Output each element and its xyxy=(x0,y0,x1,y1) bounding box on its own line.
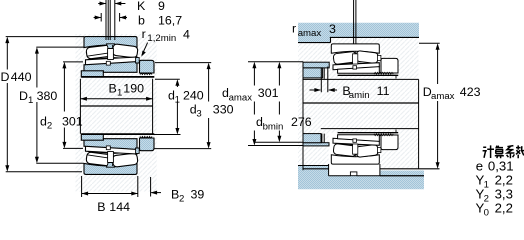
svg-text:D: D xyxy=(19,89,28,103)
svg-text:bmin: bmin xyxy=(263,121,284,132)
svg-text:240: 240 xyxy=(183,88,204,102)
svg-text:B: B xyxy=(97,200,105,214)
svg-text:B: B xyxy=(109,82,117,96)
svg-text:301: 301 xyxy=(258,86,279,100)
svg-text:r: r xyxy=(292,22,296,36)
svg-text:11: 11 xyxy=(377,84,390,98)
svg-text:9: 9 xyxy=(158,0,165,13)
svg-text:0,31: 0,31 xyxy=(488,158,514,173)
svg-text:amax: amax xyxy=(431,91,455,102)
svg-text:3: 3 xyxy=(329,22,336,36)
svg-text:2: 2 xyxy=(179,193,184,204)
svg-text:3,3: 3,3 xyxy=(495,186,513,201)
svg-text:b: b xyxy=(138,14,145,28)
svg-text:1: 1 xyxy=(484,179,489,190)
svg-text:330: 330 xyxy=(213,103,234,117)
svg-text:16,7: 16,7 xyxy=(158,14,182,28)
svg-text:2,2: 2,2 xyxy=(495,201,513,216)
svg-text:1: 1 xyxy=(117,88,122,99)
svg-text:380: 380 xyxy=(37,89,58,103)
svg-text:amax: amax xyxy=(298,28,322,39)
svg-text:2: 2 xyxy=(47,120,52,131)
svg-text:423: 423 xyxy=(460,85,481,99)
svg-text:r: r xyxy=(142,27,146,41)
svg-text:1: 1 xyxy=(175,94,180,105)
svg-text:1,2min: 1,2min xyxy=(147,33,176,44)
svg-text:276: 276 xyxy=(291,115,312,129)
svg-text:190: 190 xyxy=(123,82,144,96)
svg-text:amax: amax xyxy=(229,92,253,103)
svg-text:144: 144 xyxy=(109,200,130,214)
svg-text:K: K xyxy=(137,0,146,13)
svg-text:0: 0 xyxy=(484,208,489,219)
svg-text:2: 2 xyxy=(484,194,489,205)
svg-text:2,2: 2,2 xyxy=(495,172,513,187)
svg-text:1: 1 xyxy=(28,95,33,106)
svg-text:e: e xyxy=(476,158,483,173)
svg-text:4: 4 xyxy=(183,28,190,42)
svg-text:3: 3 xyxy=(196,109,201,120)
svg-text:39: 39 xyxy=(191,187,205,201)
svg-text:amin: amin xyxy=(349,90,370,101)
svg-text:301: 301 xyxy=(62,114,83,128)
svg-text:440: 440 xyxy=(11,70,32,84)
svg-text:D: D xyxy=(1,70,10,84)
